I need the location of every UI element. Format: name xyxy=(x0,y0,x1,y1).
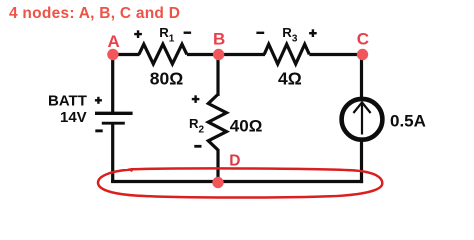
polarity + (R2 top) xyxy=(192,95,200,103)
wire: battery down to bottom xyxy=(111,123,114,183)
wire: R3 to C xyxy=(309,53,363,56)
svg-text:40Ω: 40Ω xyxy=(230,117,263,136)
bottom wire node D net xyxy=(111,180,363,183)
svg-text:A: A xyxy=(108,32,120,51)
wire: B down to R2 xyxy=(216,55,219,97)
polarity - (R2 bottom) xyxy=(194,145,201,148)
resistor R3 xyxy=(264,44,309,64)
node D dot xyxy=(212,177,223,188)
current source I1 circle xyxy=(342,99,383,140)
svg-text:0.5A: 0.5A xyxy=(390,112,426,131)
polarity - (R1 right) xyxy=(184,32,192,34)
polarity + (R1 left) xyxy=(134,30,142,38)
svg-text:B: B xyxy=(213,29,225,48)
label BATT 14V xyxy=(48,93,87,126)
svg-text:D: D xyxy=(229,152,240,169)
svg-text:14V: 14V xyxy=(60,109,87,126)
svg-text:C: C xyxy=(357,29,369,48)
wire: B to R3 xyxy=(217,53,265,56)
polarity - (battery) xyxy=(95,129,102,132)
resistor R2 xyxy=(208,95,226,150)
polarity + (battery) xyxy=(95,97,102,104)
annotation: hand-drawn red ellipse around node D net xyxy=(98,168,382,197)
wire: C down to current source xyxy=(360,55,363,100)
battery BATT plates xyxy=(95,113,133,123)
svg-text:4Ω: 4Ω xyxy=(278,69,302,89)
svg-text:BATT: BATT xyxy=(48,93,87,110)
wire: R1 to B xyxy=(187,53,220,56)
polarity - (R3 left) xyxy=(256,32,264,34)
current source arrow xyxy=(353,102,370,134)
svg-text:80Ω: 80Ω xyxy=(150,69,184,89)
node C dot xyxy=(357,49,368,60)
wire: A down to battery xyxy=(111,55,114,113)
node A dot xyxy=(107,49,118,60)
resistor R1 xyxy=(139,44,187,64)
polarity + (R3 right) xyxy=(309,29,317,37)
svg-text:4 nodes: A, B, C and D: 4 nodes: A, B, C and D xyxy=(9,5,180,22)
node B dot xyxy=(213,49,224,60)
wire: current source down to bottom xyxy=(360,140,363,183)
wire: A to R1 xyxy=(112,53,140,56)
wire: R2 down to D xyxy=(216,149,219,183)
